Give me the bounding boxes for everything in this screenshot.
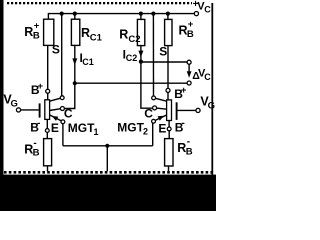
- svg-text:G: G: [208, 101, 215, 112]
- terminal switch S left contact: [60, 96, 64, 100]
- MGT2 collector stub: [157, 108, 167, 109]
- svg-text:+: +: [38, 81, 44, 92]
- svg-text:C1: C1: [82, 57, 94, 67]
- wire MGT2 base minus: [168, 121, 170, 128]
- svg-text:MGT: MGT: [68, 121, 95, 135]
- svg-text:C2: C2: [126, 53, 138, 63]
- wire B+ right to MGT2 bar: [167, 92, 169, 100]
- MGT1 gate bar: [39, 103, 41, 117]
- wire MGT2 collector link: [141, 62, 153, 109]
- terminal dVC upper: [187, 60, 191, 64]
- svg-text:C: C: [64, 106, 73, 120]
- wire MGT1 emitter down: [62, 124, 64, 146]
- wire collector rail MGT1 to dVC lower: [75, 82, 187, 84]
- svg-text:C: C: [144, 107, 153, 121]
- top dashed cell boundary: [7, 2, 192, 4]
- svg-text:C2: C2: [128, 34, 140, 45]
- svg-text:G: G: [11, 99, 18, 110]
- MGT2 gate bar: [176, 102, 178, 120]
- arrow IC2: [138, 51, 143, 58]
- MGT2 emitter diagonal: [155, 115, 167, 121]
- MGT1 channel bar: [45, 100, 50, 120]
- wire RC2 top: [140, 14, 142, 20]
- svg-text:C1: C1: [90, 33, 103, 44]
- terminal collector C left: [60, 107, 64, 111]
- svg-text:C: C: [204, 5, 211, 15]
- svg-text:2: 2: [143, 127, 148, 137]
- wire B+ left to MGT1 bar: [47, 93, 49, 100]
- wire RB+ right top: [167, 14, 169, 20]
- wire B- right to RB- box: [168, 131, 170, 139]
- svg-text:B: B: [33, 30, 40, 41]
- resistor RB- right: [165, 139, 173, 166]
- resistor RB- left: [44, 139, 52, 166]
- svg-text:B: B: [186, 146, 193, 157]
- wire VG right gate lead: [178, 109, 196, 111]
- terminal B- right: [167, 127, 171, 131]
- terminal VG right: [196, 108, 200, 112]
- MGT1 collector stub: [50, 109, 61, 111]
- svg-text:B: B: [33, 148, 40, 159]
- svg-text:C: C: [204, 72, 211, 82]
- wire RC1 bottom IC1 branch: [74, 45, 76, 83]
- wire switch S right: [152, 14, 154, 96]
- wire emitter rail tail to boundary: [106, 146, 108, 172]
- wire switch S left: [61, 14, 63, 96]
- wire B- left to RB- box: [46, 132, 48, 138]
- arrow MGT1 emitter: [52, 116, 59, 121]
- terminal VG left: [16, 108, 20, 112]
- junction dot rail S left: [60, 12, 64, 16]
- wire VG left gate lead: [21, 109, 39, 111]
- svg-text:E: E: [51, 121, 59, 135]
- wire RB+ left to B+ node: [47, 45, 49, 89]
- terminal collector C right: [153, 106, 157, 110]
- terminal B- left: [45, 129, 49, 133]
- arrow MGT2 emitter: [158, 116, 164, 121]
- junction node C2: [139, 60, 143, 64]
- junction emitter rail node: [105, 144, 109, 148]
- wire emitter rail: [63, 145, 153, 147]
- right black border line: [211, 3, 213, 175]
- wire MGT1 collector link: [64, 83, 74, 108]
- wire +VC supply top rail: [48, 14, 194, 20]
- left black border strip: [0, 0, 4, 211]
- terminal emitter E right: [152, 119, 156, 123]
- terminal dVC lower: [187, 81, 191, 85]
- wire MGT1 base minus: [46, 119, 48, 128]
- bottom dashed cell boundary: [4, 171, 212, 174]
- svg-text:E: E: [158, 121, 166, 135]
- svg-text:-: -: [182, 118, 185, 129]
- switch S right blade: [155, 98, 166, 101]
- svg-text:R: R: [119, 28, 128, 42]
- wire RC2 bottom IC2 branch: [140, 46, 142, 62]
- wire collector rail MGT2 to dVC upper: [141, 61, 187, 63]
- resistor RB+ right: [165, 19, 172, 45]
- terminal switch S right contact: [152, 96, 156, 100]
- wire dVC arrow stem: [188, 64, 190, 71]
- wire RB+ right to B+ node: [167, 46, 169, 89]
- junction node C1: [73, 81, 77, 85]
- junction dot rail RC1: [73, 12, 77, 16]
- svg-text:R: R: [81, 26, 90, 40]
- svg-text:S: S: [159, 44, 167, 58]
- wire MGT2 emitter up: [152, 123, 154, 146]
- wire RB- left bottom: [47, 166, 49, 172]
- arrow IC1: [72, 58, 77, 65]
- junction dot rail S right: [151, 12, 155, 16]
- terminal B+ left: [46, 89, 50, 93]
- junction dot rail RC2: [139, 12, 143, 16]
- arrow dVC: [187, 71, 192, 78]
- resistor RC1: [71, 19, 79, 45]
- bottom black band: [0, 175, 216, 211]
- terminal +VC: [194, 12, 198, 16]
- resistor RB+ left: [44, 19, 54, 45]
- terminal B+ right: [166, 88, 170, 92]
- svg-text:-: -: [37, 118, 40, 129]
- svg-text:B: B: [187, 29, 194, 40]
- wire RB- right bottom: [168, 166, 170, 172]
- svg-text:MGT: MGT: [117, 121, 144, 135]
- terminal emitter E left: [61, 120, 65, 124]
- switch S left blade: [50, 98, 61, 101]
- wire RC1 top: [74, 14, 76, 20]
- svg-text:S: S: [52, 42, 60, 56]
- MGT1 emitter diagonal: [50, 115, 62, 121]
- junction dot rail RB+ right: [166, 12, 170, 16]
- svg-text:1: 1: [94, 127, 99, 137]
- svg-text:+: +: [181, 85, 187, 96]
- MGT2 channel bar: [167, 100, 172, 121]
- resistor RC2: [137, 19, 144, 45]
